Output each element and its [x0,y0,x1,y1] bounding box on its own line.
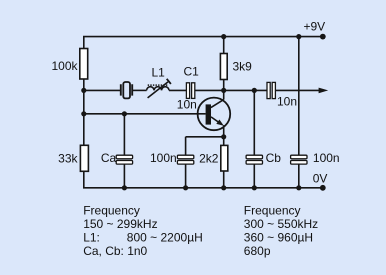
capacitor Cb [246,155,262,164]
transistor Q1 base bar [206,104,211,124]
resistor R 100k [80,49,88,80]
resistor R 33k [80,145,88,171]
node B left rail base bus [81,111,86,116]
capacitor 100n supply decoupling [291,155,307,164]
svg-text:L1:: L1: [83,231,100,245]
wire C1 to 10n output cap [195,89,267,91]
wire emitter node to 100n decoupling [186,136,224,138]
svg-text:150 ~ 299kHz: 150 ~ 299kHz [83,217,157,231]
svg-text:360 ~ 960µH: 360 ~ 960µH [244,231,313,245]
svg-text:10n: 10n [277,95,297,109]
svg-text:100n: 100n [313,151,340,165]
svg-text:100k: 100k [51,59,78,73]
wire base bus (node B to transistor base) [84,113,206,115]
resistor R 2k2 [221,145,228,171]
wire output cap to arrow [276,89,322,91]
wire Cb rail [253,90,255,187]
output arrowhead [319,88,329,94]
wire crystal to L1 [133,89,147,91]
crystal X1 [121,82,132,98]
capacitor 100n emitter decoupling [177,155,193,164]
wire top +9V bus / left rail / bottom 0V bus [84,37,323,188]
node Cb bottom [252,185,257,190]
transistor Q1 emitter arrowhead [216,120,224,126]
svg-text:10n: 10n [177,98,197,112]
svg-text:800 ~ 2200µH: 800 ~ 2200µH [127,231,203,245]
svg-text:+9V: +9V [304,19,326,33]
node emitter [221,134,226,139]
transistor Q1 [198,98,231,131]
node Ca bottom [122,185,127,190]
svg-text:Frequency: Frequency [244,204,301,218]
terminal +9V [320,34,326,40]
wire Ca rail [123,114,125,188]
resistor R 3k9 [220,54,227,80]
capacitor C1 [186,83,194,99]
node Ca base bus [122,111,127,116]
wire 3k9 to collector node [223,80,225,100]
svg-text:2k2: 2k2 [199,151,219,165]
svg-text:Frequency: Frequency [83,204,140,218]
wire oscillator chain (node A to output) [84,89,120,91]
inductor L1 (adjustable) [147,79,171,98]
node top bus / +9V rail [296,34,301,39]
node collector [221,88,226,93]
wire emitter vertical to 2k2 [223,125,225,145]
svg-text:0V: 0V [313,172,328,186]
svg-text:L1: L1 [152,65,166,79]
node top bus / 3k9 [221,34,226,39]
svg-text:300 ~ 550kHz: 300 ~ 550kHz [244,217,318,231]
svg-text:100n: 100n [150,151,177,165]
node A left rail chain [81,88,86,93]
node +9V rail bottom [296,185,301,190]
wire +9V rail [298,37,300,188]
node 100n-left bottom [183,185,188,190]
svg-text:680p: 680p [244,244,271,258]
wire collector diagonal [211,100,224,108]
svg-text:Ca, Cb: 1n0: Ca, Cb: 1n0 [83,244,147,258]
wire emitter diagonal [211,117,221,124]
note left frequency block [83,204,203,259]
node Cb top [252,88,257,93]
wire top bus to 3k9 [223,37,225,54]
svg-text:C1: C1 [184,65,200,79]
svg-text:Ca: Ca [101,151,117,165]
note right frequency block [244,204,318,259]
node 2k2 bottom [221,185,226,190]
wire L1 to C1 [169,89,186,91]
wire 100n-left rail [185,137,187,188]
wire 2k2 to bottom bus [223,171,225,188]
terminal 0V [320,185,326,191]
capacitor 10n output coupling [267,82,275,98]
svg-text:33k: 33k [58,151,78,165]
capacitor Ca [116,155,132,164]
svg-text:Cb: Cb [266,151,282,165]
svg-text:3k9: 3k9 [233,60,253,74]
